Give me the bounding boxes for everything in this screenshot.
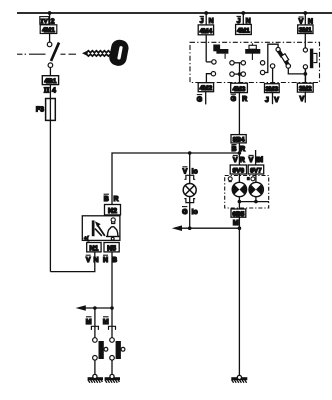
arrow left switches: [76, 305, 86, 311]
ground middle: [231, 375, 247, 383]
relay contact left bottom: [211, 72, 215, 76]
wire label G under 4M2: [197, 95, 203, 104]
relay contact cluster top pair: [230, 61, 234, 65]
svg-text:9V6: 9V6: [233, 167, 245, 174]
wire label B R at N2: [104, 194, 119, 203]
svg-text:4M3: 4M3: [233, 86, 246, 93]
node bus junction left: [48, 11, 52, 15]
switch push right contact bottom: [110, 356, 115, 361]
wire main vertical 8B4 to 9V6: [238, 143, 240, 165]
relay coil 1: [213, 45, 228, 54]
svg-text:II: II: [44, 87, 50, 95]
connector label 4M4: [198, 25, 213, 35]
svg-text:Ic: Ic: [192, 169, 198, 176]
wire label M right: [103, 317, 109, 326]
key symbol: [82, 38, 130, 67]
relay contact mid-right pair: [260, 61, 264, 65]
relay contact right top: [303, 48, 307, 52]
switch ignition contact bottom: [48, 63, 53, 68]
svg-text:4M2: 4M2: [200, 85, 213, 92]
svg-text:M: M: [103, 319, 109, 326]
connector label 4M1 (ignition switch): [40, 25, 57, 34]
svg-text:J: J: [265, 97, 269, 104]
wire bend to N1: [50, 252, 94, 272]
wire N5 down to switches: [111, 252, 113, 308]
svg-text:N1: N1: [89, 245, 98, 252]
connector label N5: [104, 243, 119, 253]
switch thermal contact top: [276, 47, 280, 51]
connector label 3M2: [297, 83, 313, 92]
node junction switch left: [93, 306, 97, 310]
wire 4M3 to 8B4 main vertical: [238, 93, 240, 135]
connector symbol left: [91, 326, 98, 330]
wire switch left drop: [94, 308, 96, 338]
svg-text:B: B: [231, 146, 236, 153]
node junction main/mass: [238, 226, 242, 230]
svg-text:3M2: 3M2: [299, 86, 312, 93]
wire cluster to 4M3: [239, 63, 241, 83]
svg-text:4: 4: [52, 88, 56, 95]
switch ignition blade: [51, 43, 59, 61]
wire 4M4 drop: [205, 13, 207, 62]
svg-text:N: N: [209, 18, 214, 25]
box K unit (buzzer module): [82, 216, 120, 241]
switch thermal blade diagonal: [279, 51, 289, 66]
connector symbol right: [109, 326, 116, 330]
connector label 8B4: [231, 135, 246, 144]
switch push right actuator: [116, 341, 121, 359]
node junction switch right: [110, 306, 114, 310]
wire horizontal K-unit feed: [112, 153, 239, 205]
connector label 6B5: [231, 209, 246, 218]
connector label 3M3: [265, 84, 280, 93]
svg-text:G: G: [182, 209, 188, 216]
svg-text:F3: F3: [36, 107, 44, 114]
svg-text:3M1: 3M1: [299, 27, 312, 34]
switch push left contact bottom: [93, 356, 98, 361]
svg-text:Ic: Ic: [192, 209, 198, 216]
svg-text:N: N: [103, 257, 108, 264]
wire main vertical to ground: [238, 217, 240, 375]
wire 3M1 drop: [304, 13, 306, 48]
connector label 4M2: [198, 83, 213, 92]
svg-text:4M4: 4M4: [200, 28, 213, 35]
lamp warning right: [249, 182, 263, 196]
relay contact right bottom: [303, 65, 307, 69]
svg-text:3M3: 3M3: [265, 86, 278, 93]
node junction lamp/mass: [188, 226, 192, 230]
svg-text:G: G: [231, 96, 237, 103]
node bus junction 4M1: [241, 11, 245, 15]
wire riser diagonal-switch feed: [265, 44, 278, 72]
arrow left mass: [172, 225, 182, 231]
wire lamp Ic branch: [189, 153, 191, 184]
relay actuator bar right: [310, 49, 313, 69]
switch push left actuator: [99, 341, 104, 359]
connector label 9V7: [248, 165, 264, 174]
wire ignition feed drop: [49, 13, 51, 42]
wire label M left: [86, 317, 92, 326]
connector label 4M1 (relay): [236, 24, 252, 34]
svg-text:9V7: 9V7: [250, 167, 262, 174]
svg-text:N2: N2: [108, 208, 117, 215]
svg-text:N: N: [93, 257, 98, 264]
relay coil 2: [251, 43, 253, 60]
box relay unit dash-dot: [190, 42, 320, 82]
switch thermal contact bottom: [286, 64, 290, 68]
svg-text:B: B: [104, 196, 109, 203]
lamp Ic (indicator): [183, 184, 196, 197]
relay contact cluster bottom pair: [230, 72, 234, 76]
node lamp right: [254, 200, 258, 204]
wire label V Bi above 9V7: [249, 155, 264, 164]
svg-text:6B5: 6B5: [232, 211, 244, 218]
fuse F3: [46, 99, 56, 121]
svg-text:V: V: [274, 97, 279, 104]
node junction right: [303, 72, 307, 76]
buzzer bell in K box: [106, 227, 120, 240]
wire label V N (3M1): [299, 17, 313, 26]
wire blade bottom to 3M2 node: [288, 68, 303, 74]
wire label J N (4M1): [237, 16, 251, 25]
connector label 9V6: [230, 165, 246, 174]
connector label IV 2: [40, 17, 55, 26]
wire stub below 3M3: [272, 93, 274, 105]
node bus junction 3M1: [303, 11, 307, 15]
wire top supply bus: [17, 12, 332, 14]
svg-text:4M1: 4M1: [237, 28, 250, 35]
ground right: [105, 374, 120, 382]
connector label 3M1: [298, 25, 313, 34]
connector label N1: [87, 243, 101, 253]
switch push left contact top: [93, 338, 98, 343]
svg-text:Bi: Bi: [256, 157, 263, 164]
svg-text:V: V: [299, 96, 304, 103]
svg-text:N5: N5: [107, 245, 116, 252]
wire label J V under 3M3: [265, 97, 279, 104]
svg-text:J: J: [200, 18, 204, 25]
relay contact left top: [206, 61, 211, 63]
wire label G R under 4M3: [231, 94, 248, 103]
switch ignition contact top: [47, 42, 52, 47]
wire switch to 4B1: [49, 68, 51, 77]
svg-text:8B4: 8B4: [233, 137, 245, 144]
wire stubs lamps top: [238, 174, 240, 183]
connector symbol above lamp: [184, 175, 195, 179]
wire label G Ic: [182, 207, 198, 216]
wire stub below 4M2: [205, 92, 207, 105]
wire stub 9V7: [255, 150, 257, 165]
svg-text:4M1: 4M1: [42, 27, 55, 34]
wire lamps bottom link: [239, 201, 269, 203]
svg-text:R: R: [240, 157, 245, 164]
node junction main vertical: [238, 151, 242, 155]
svg-text:+(: +(: [84, 236, 89, 242]
svg-text:V: V: [249, 157, 254, 164]
svg-text:4B1: 4B1: [44, 78, 56, 85]
switch push right contact top: [110, 338, 115, 343]
wire 4M1 drop: [242, 13, 244, 25]
wire 3M1 contact to node: [304, 69, 306, 83]
relay K arrow glyph: [92, 220, 105, 236]
wire stubs lamps bottom: [238, 196, 240, 209]
svg-text:V: V: [86, 257, 91, 264]
wire horizontal to arrow (mass line): [180, 227, 239, 229]
node junction lamp branch: [188, 151, 192, 155]
wire label V R above 9V6: [233, 155, 245, 164]
svg-text:R: R: [240, 146, 245, 153]
svg-text:R: R: [242, 96, 247, 103]
wire switch right drop: [111, 308, 113, 338]
node bus junction 4M4: [204, 11, 208, 15]
node junction cluster: [238, 72, 242, 76]
svg-text:V: V: [233, 157, 238, 164]
svg-text:G: G: [197, 97, 203, 104]
connector symbol below lamp: [184, 199, 195, 203]
connector label II 4: [44, 87, 56, 95]
connector label N2: [105, 205, 121, 216]
lamp warning left: [232, 182, 246, 196]
wire stub below 3M2: [304, 92, 306, 103]
svg-text:M: M: [86, 319, 92, 326]
svg-text:B: B: [112, 257, 117, 264]
small lamp glyph in K box: [111, 218, 115, 224]
wire label B R under 8B4: [231, 145, 245, 154]
wire switch right to ground: [111, 360, 113, 374]
wire label J N (4M4): [200, 16, 214, 25]
box twin lamp unit dash-dot: [225, 176, 269, 209]
small bulb glyph right: [247, 177, 255, 181]
wire label V Ic: [182, 167, 197, 176]
ground left: [88, 374, 103, 382]
connector label 4B1: [42, 76, 58, 85]
connector label 4M3: [231, 83, 248, 93]
node lamp left: [238, 200, 242, 204]
wire switches feed horizontal: [84, 307, 112, 309]
small bulb glyph left: [228, 177, 232, 182]
svg-text:IV: IV: [41, 18, 49, 25]
wire mechanical dash-dot linkage: [17, 53, 76, 55]
wire switch left to ground: [94, 360, 96, 374]
svg-text:M: M: [233, 220, 239, 227]
wire 4B1 to fuse to bottom bend: [49, 85, 51, 272]
svg-text:R: R: [113, 196, 118, 203]
wire 3M3 contact: [270, 64, 274, 68]
wire labels V N / N B under K unit: [86, 255, 117, 264]
svg-text:V: V: [183, 169, 188, 176]
